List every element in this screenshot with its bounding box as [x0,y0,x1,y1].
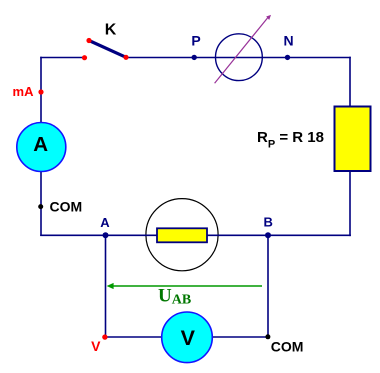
svg-text:RP = R 18: RP = R 18 [257,129,324,151]
wire bottom (V terminal to voltmeter) [105,336,162,338]
UAB arrow [107,283,262,289]
svg-text:COM: COM [50,199,83,215]
measured resistor circle (ohmmeter view) [146,199,218,271]
svg-text:V: V [91,338,101,354]
svg-text:V: V [181,326,196,350]
resistor RP rectangle [335,107,371,172]
switch blade tip dot [86,38,91,43]
wire bottom (voltmeter to COM terminal) [212,336,269,338]
wire left vertical (ammeter to bottom-left corner) [40,171,42,236]
wire bottom-left horizontal (corner to node A) [40,234,105,236]
svg-text:K: K [105,22,117,39]
node COM (ammeter) dot [38,204,43,209]
svg-text:A: A [100,215,110,230]
svg-text:mA: mA [13,84,35,99]
svg-text:COM: COM [271,339,304,355]
svg-text:A: A [33,133,48,156]
node P dot [192,55,197,60]
switch terminal dot left [82,55,87,60]
svg-text:B: B [264,215,273,230]
wire node A vertical drop [105,235,107,337]
wire left vertical (top corner down to ammeter) [40,57,42,123]
wire through measured resistor circle [145,234,219,236]
node A dot [103,232,109,238]
svg-text:P: P [191,33,200,49]
wire right vertical (resistor bottom to corner) [349,172,351,237]
node V terminal dot [102,334,107,339]
node B dot [265,232,271,238]
wire node B vertical drop [267,235,269,337]
wire top horizontal (switch right terminal to right corner) [126,57,351,59]
rheostat arrow (variable adjustment) [215,15,271,83]
svg-text:N: N [283,33,293,49]
ammeter U1 circle [17,123,66,172]
svg-text:UAB: UAB [158,285,191,307]
voltmeter circle [162,312,213,363]
node N dot [285,55,290,60]
node mA terminal dot [38,89,43,94]
wire right vertical (top corner to resistor top) [349,57,351,107]
measured resistor rectangle [157,228,207,242]
wire B to bottom-right corner [268,234,351,236]
switch terminal dot right [123,55,128,60]
switch K blade [89,41,126,58]
wire top-left horizontal (corner to switch left terminal) [40,57,84,59]
node COM (voltmeter) dot [265,334,270,339]
rheostat circle [216,34,263,81]
wire A to B horizontal [106,234,269,236]
